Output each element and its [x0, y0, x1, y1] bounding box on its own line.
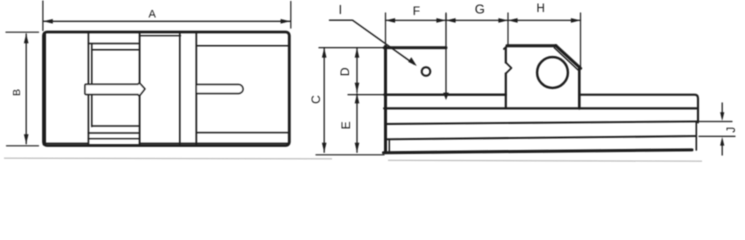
jaw plate lower inner line (plan view) — [92, 125, 140, 127]
dimension B arrowhead bottom — [24, 134, 29, 144]
base left foot line (side view) — [388, 139, 390, 152]
arrowhead at base surface — [443, 93, 449, 100]
side view left face edge — [384, 46, 387, 152]
dimension A extension line right — [290, 2, 292, 29]
dimension G arrowhead right — [498, 18, 508, 23]
dimension B extension line top — [6, 31, 39, 33]
dimension C D E top extension line — [319, 47, 384, 49]
base bottom edge (side view) — [384, 150, 693, 153]
svg-text:I: I — [339, 3, 342, 17]
dimension A extension line left — [42, 1, 44, 31]
dimension A arrowhead right — [281, 19, 291, 24]
svg-text:F: F — [413, 4, 420, 18]
svg-text:G: G — [475, 2, 485, 17]
base top line right segment (side view) — [580, 95, 698, 123]
movable jaw block left edge upper (side view) — [505, 48, 507, 63]
movable jaw plate outer box (plan view) — [87, 33, 89, 146]
fixed jaw top line (plan view) — [196, 45, 288, 47]
svg-text:A: A — [149, 9, 157, 21]
svg-text:B: B — [11, 89, 23, 96]
dimension G arrowhead left — [446, 18, 456, 23]
fixed jaw bottom line (plan view) — [196, 132, 288, 134]
base fourth line (side view) — [385, 136, 696, 139]
fixed jaw block top edge (side view) — [384, 46, 446, 49]
movable jaw top-left corner chamfer (side view) — [504, 46, 508, 49]
movable jaw v-notch (side view) — [506, 63, 512, 74]
dimension H extension line — [580, 13, 582, 67]
dimension F-G extension line — [445, 13, 447, 20]
leader arrowhead for I — [408, 57, 417, 66]
movable jaw chamfer inner line (side view) — [554, 48, 578, 70]
body top inner line (plan view) — [140, 35, 181, 37]
dimension D arrowhead top — [355, 48, 360, 58]
movable jaw right edge (side view) — [578, 67, 581, 108]
dimension D arrowhead bottom — [355, 83, 360, 93]
svg-text:D: D — [338, 67, 352, 76]
dimension F extension line — [385, 13, 387, 44]
slide edge line (plan view) — [179, 34, 181, 145]
body left edge thick face (plan view) — [43, 34, 46, 144]
dimension B extension line bottom — [7, 145, 39, 147]
dimension C E bottom extension line — [316, 154, 384, 156]
dimension F G H line — [386, 19, 581, 21]
dimension C arrowhead top — [322, 48, 327, 58]
dimension G-H extension line — [507, 13, 509, 47]
svg-text:H: H — [537, 3, 545, 15]
dimension F arrowhead right — [436, 18, 446, 23]
jaw plate top line (plan view) — [88, 43, 139, 45]
jaw plate right edge (plan view) — [139, 34, 141, 145]
dimension C line — [323, 48, 325, 152]
svg-text:J: J — [726, 127, 738, 133]
movable jaw block left edge lower (side view) — [505, 74, 507, 109]
large bore circle (side view) — [537, 57, 568, 88]
base second line (side view) — [384, 107, 696, 109]
pointed screw slot (plan view) — [85, 83, 145, 96]
scan streak bottom left — [4, 157, 332, 160]
dimension B line — [25, 34, 27, 144]
dimension E line — [356, 94, 358, 153]
small bore circle (side view) — [422, 67, 431, 76]
movable jaw chamfer (side view) — [556, 46, 581, 69]
svg-text:E: E — [339, 121, 353, 129]
dimension H arrowhead left — [508, 18, 518, 23]
jaw plate bottom line (plan view) — [88, 132, 139, 134]
base third line (side view) — [385, 121, 698, 124]
base right end lower edge (side view) — [695, 121, 697, 150]
dimension D line — [356, 48, 358, 92]
jaw plate third bottom line (plan view) — [88, 138, 139, 140]
dimension J lower arrow stem — [721, 142, 723, 155]
dimension E arrowhead top — [355, 94, 360, 104]
fixed jaw edge line (plan view) — [195, 34, 197, 145]
dimension J upper arrow stem — [721, 103, 723, 116]
leader line for I — [330, 20, 415, 64]
base top line left segment (side view) — [384, 94, 506, 96]
body bottom inner line left (plan view) — [46, 142, 88, 144]
vise body outline (plan view) — [44, 32, 290, 146]
dimension D E middle extension line — [348, 94, 383, 96]
fixed jaw block right edge with arrow (side view) — [445, 14, 447, 94]
svg-text:C: C — [309, 95, 323, 104]
movable jaw block top edge (side view) — [507, 44, 556, 47]
dimension J bottom extension tick — [699, 135, 735, 137]
round-ended slot (plan view) — [196, 85, 243, 94]
dimension J top extension tick — [699, 121, 732, 123]
dimension J lower arrowhead — [720, 137, 724, 146]
jaw plate inner left line (plan view) — [91, 44, 93, 127]
dimension A line — [43, 20, 290, 22]
dimension C arrowhead bottom — [322, 143, 327, 153]
dimension B arrowhead top — [24, 34, 29, 44]
jaw plate second top line (plan view) — [92, 49, 140, 51]
dimension F arrowhead left — [386, 18, 396, 23]
dimension H arrowhead right — [571, 18, 581, 23]
scan streak bottom right — [388, 159, 702, 162]
dimension E arrowhead bottom — [355, 143, 360, 153]
dimension J upper arrowhead — [720, 112, 724, 121]
body bottom inner line right (plan view) — [140, 142, 288, 144]
dimension A arrowhead left — [43, 19, 53, 24]
